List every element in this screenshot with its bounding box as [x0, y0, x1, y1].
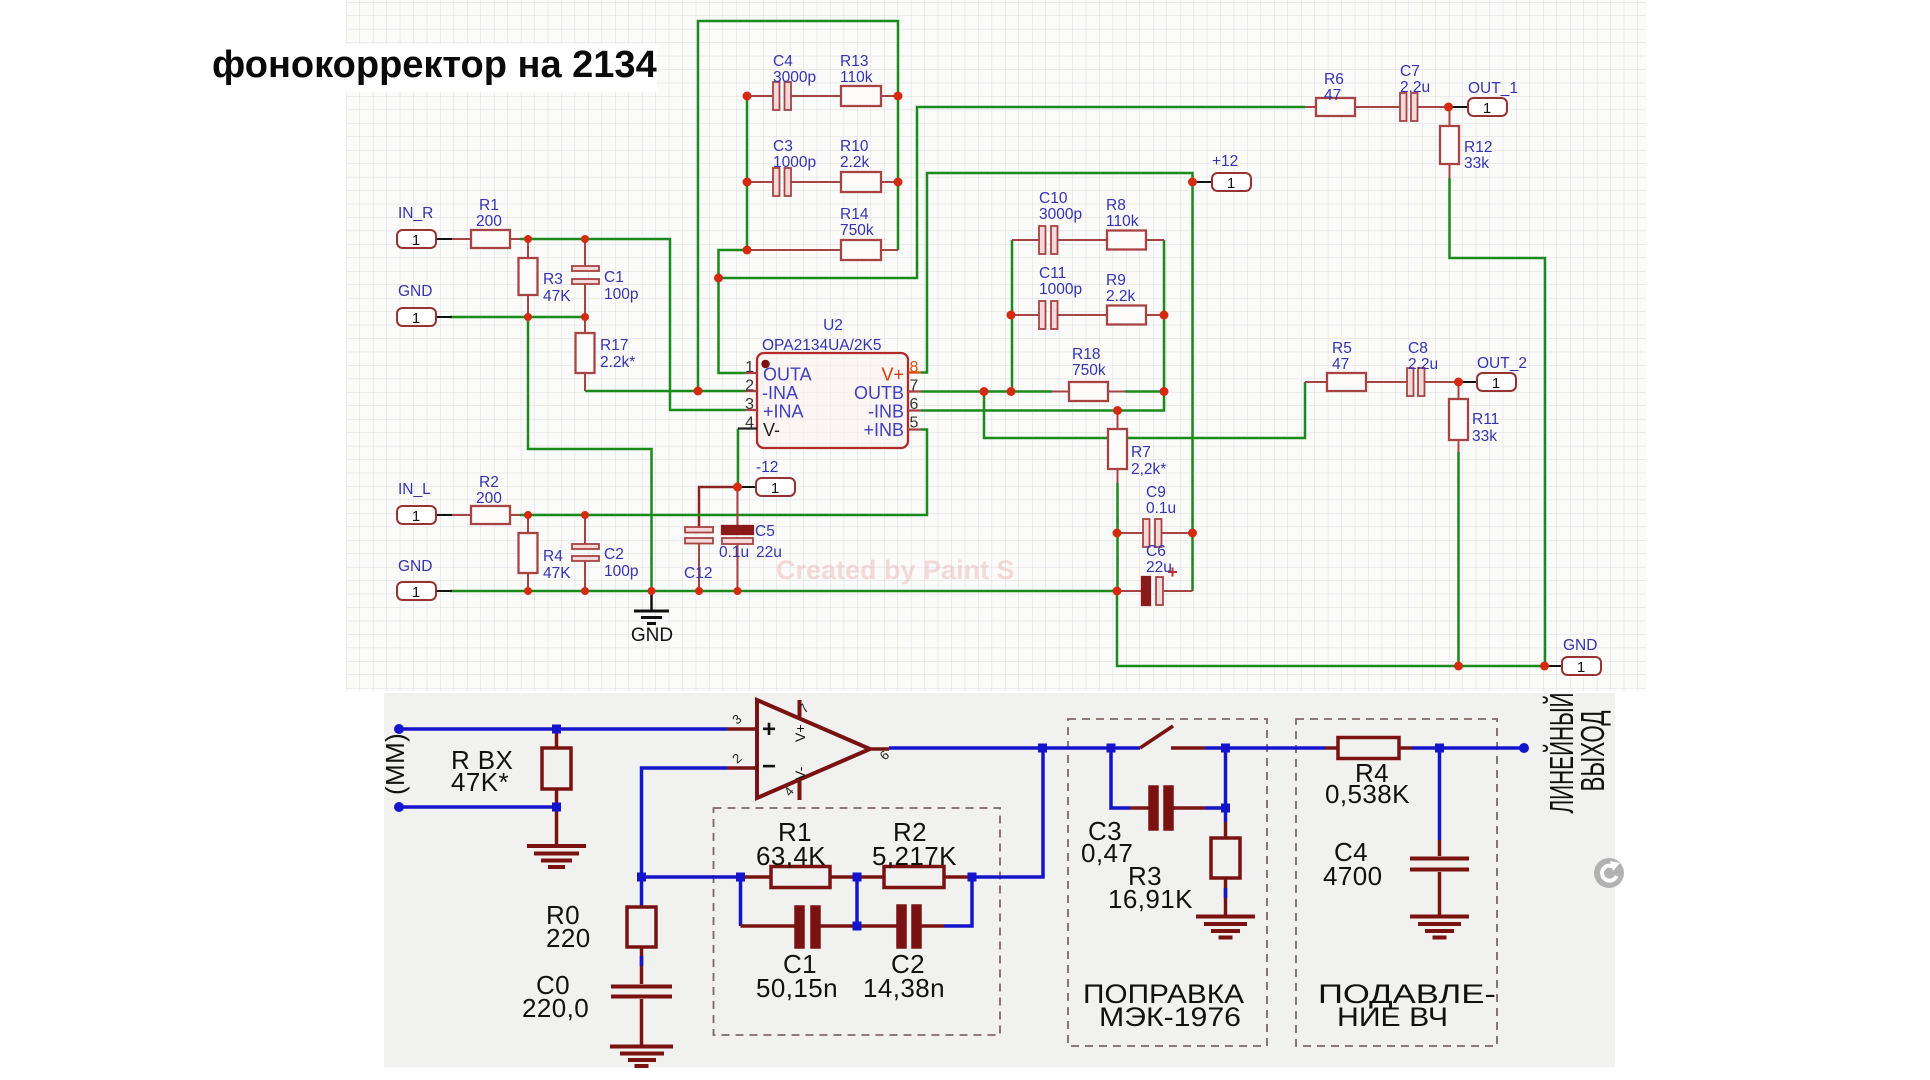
junction dots (top schematic): [524, 92, 1549, 671]
svg-text:R17: R17: [600, 337, 628, 354]
svg-text:+INA: +INA: [763, 402, 804, 422]
capacitor C6 electrolytic: [1117, 568, 1193, 606]
resistor R8: [1107, 231, 1164, 250]
svg-text:V+: V+: [792, 724, 808, 742]
svg-text:C12: C12: [684, 565, 712, 582]
wire net +12 / V+ pin8: [921, 173, 1193, 533]
svg-text:100p: 100p: [604, 286, 638, 303]
svg-text:C11: C11: [1039, 265, 1066, 282]
wire C2 right rise: [944, 877, 972, 926]
svg-text:0,47: 0,47: [1081, 838, 1133, 868]
resistor R6: [1305, 98, 1400, 116]
capacitor C9: [1117, 519, 1193, 547]
svg-text:3: 3: [745, 396, 754, 413]
svg-text:3000p: 3000p: [1039, 206, 1082, 223]
schematic grid background: [346, 0, 1646, 691]
svg-text:R6: R6: [1324, 71, 1344, 88]
ground below C0: [610, 1047, 673, 1067]
svg-text:2.2u: 2.2u: [1400, 79, 1430, 96]
resistor R18: [1052, 382, 1125, 401]
bottom schematic background: [384, 693, 1615, 1067]
svg-text:1: 1: [1577, 659, 1585, 676]
resistor R12: [1440, 107, 1459, 178]
wire C3 branch right / R3 top: [1205, 748, 1226, 822]
svg-text:1: 1: [412, 584, 420, 601]
dashed box R1 R2 C1 C2: [714, 808, 1001, 1035]
svg-text:R12: R12: [1464, 139, 1492, 156]
svg-text:5: 5: [910, 415, 919, 432]
svg-text:2.2u: 2.2u: [1408, 356, 1438, 373]
wire R11 bottom to rail: [1457, 452, 1460, 666]
capacitor C10: [1012, 226, 1107, 254]
wire C4 branch: [1438, 748, 1442, 840]
wire C6 right up to C9 right: [1191, 533, 1194, 591]
op-amp V- pin bar: [798, 779, 802, 800]
blue segments on component leads: [642, 888, 1226, 966]
svg-text:100p: 100p: [604, 563, 638, 580]
svg-text:R2: R2: [479, 474, 499, 491]
svg-text:R3: R3: [543, 271, 563, 288]
capacitor C4: [747, 82, 841, 110]
capacitor C2 14,38n: [857, 906, 944, 947]
capacitor C5 electrolytic: [722, 487, 753, 591]
svg-text:C3: C3: [773, 138, 793, 155]
wire R12 bottom route to rail: [1450, 178, 1546, 666]
svg-text:(MM): (MM): [380, 733, 410, 795]
svg-text:0,538K: 0,538K: [1325, 779, 1410, 809]
svg-text:0.1u: 0.1u: [1146, 500, 1176, 517]
svg-text:7: 7: [910, 378, 919, 395]
svg-text:GND: GND: [631, 625, 673, 646]
resistor R1: [450, 230, 520, 248]
svg-text:фонокорректор на 2134: фонокорректор на 2134: [212, 44, 657, 86]
svg-text:1: 1: [771, 480, 779, 497]
resistor R4: [519, 515, 538, 591]
svg-text:IN_R: IN_R: [398, 205, 433, 222]
wire feedback row to R1: [642, 875, 741, 879]
svg-text:2: 2: [745, 378, 754, 395]
capacitor C7: [1400, 93, 1448, 121]
port IN_R: [397, 205, 452, 249]
svg-text:110k: 110k: [840, 69, 873, 86]
svg-text:R10: R10: [840, 138, 869, 155]
switch arm: [1140, 726, 1173, 748]
svg-text:R13: R13: [840, 53, 868, 70]
svg-text:IN_L: IN_L: [398, 481, 431, 498]
svg-text:OUT_1: OUT_1: [1468, 80, 1518, 97]
capacitor C11: [1012, 301, 1107, 329]
svg-text:МЭК-1976: МЭК-1976: [1099, 1002, 1241, 1032]
resistor R3 16,91K: [1211, 822, 1240, 916]
capacitor C1 50,15n: [741, 907, 858, 947]
svg-text:C1: C1: [604, 269, 624, 286]
capacitor C8: [1407, 368, 1459, 396]
svg-text:C7: C7: [1400, 63, 1420, 80]
svg-text:C6: C6: [1146, 543, 1166, 560]
svg-text:C5: C5: [755, 523, 775, 540]
svg-text:47: 47: [1332, 356, 1349, 373]
capacitor C12: [685, 527, 713, 591]
svg-text:47K: 47K: [543, 565, 571, 582]
svg-text:1: 1: [1492, 375, 1500, 392]
svg-text:R14: R14: [840, 206, 869, 223]
svg-text:V-: V-: [792, 766, 808, 780]
ground symbol GND (top schematic): [634, 591, 669, 624]
svg-text:-12: -12: [756, 459, 778, 476]
svg-text:OUT_2: OUT_2: [1477, 355, 1527, 372]
svg-text:C9: C9: [1146, 484, 1166, 501]
U2 pin 3 stub: [745, 409, 757, 411]
resistor R5: [1305, 373, 1407, 391]
resistor R BX 47K*: [542, 729, 571, 807]
svg-text:GND: GND: [398, 283, 432, 300]
title white band: [345, 44, 657, 92]
wire net IN_L row to pin5: [520, 430, 927, 516]
wire GND rail right lower: [1117, 591, 1546, 666]
svg-text:2,2k*: 2,2k*: [1131, 461, 1166, 478]
svg-text:47K*: 47K*: [451, 767, 509, 797]
svg-text:200: 200: [476, 490, 502, 507]
svg-text:GND: GND: [1563, 637, 1597, 654]
svg-text:1: 1: [1227, 175, 1235, 192]
wire input top row to op-amp +in: [399, 727, 727, 731]
U2 pin 2 stub: [745, 390, 757, 392]
capacitor C3 0,47: [1130, 787, 1205, 829]
port GND (R): [397, 283, 452, 327]
svg-text:C2: C2: [604, 546, 624, 563]
wire C10 block right vertical: [1163, 240, 1166, 392]
svg-text:+: +: [762, 716, 776, 743]
svg-text:C10: C10: [1039, 190, 1068, 207]
svg-text:R4: R4: [543, 548, 563, 565]
svg-text:220,0: 220,0: [522, 993, 589, 1023]
op-amp triangle: [757, 700, 870, 798]
svg-text:110k: 110k: [1106, 213, 1139, 230]
wire C1 left drop: [739, 877, 743, 926]
svg-text:U2: U2: [823, 317, 843, 334]
port OUT_2: [1459, 355, 1527, 392]
svg-text:OUTA: OUTA: [763, 365, 812, 385]
svg-text:1000p: 1000p: [773, 154, 816, 171]
wire R0 top lead: [640, 877, 644, 907]
wire net OUTB pin7 row: [921, 390, 1052, 393]
svg-text:3000p: 3000p: [773, 69, 816, 86]
wire net OUTA: pin1 up, to R14 row corner, and to R6 row: [719, 107, 1306, 373]
resistor R10: [841, 172, 898, 192]
svg-text:+12: +12: [1212, 153, 1238, 170]
svg-text:5,217K: 5,217K: [872, 841, 957, 871]
svg-text:33k: 33k: [1464, 155, 1489, 172]
U2 pin 6 stub: [908, 409, 921, 411]
resistor R1 63,4K: [741, 867, 858, 888]
svg-text:1000p: 1000p: [1039, 281, 1082, 298]
svg-text:R11: R11: [1472, 411, 1499, 428]
svg-text:R8: R8: [1106, 197, 1126, 214]
wire net IN_R row: [520, 239, 745, 410]
svg-text:1: 1: [1483, 100, 1491, 117]
U2 pin 4 stub (V-): [738, 427, 757, 429]
capacitor C0 220,0: [611, 947, 672, 1045]
svg-text:-INA: -INA: [762, 383, 798, 403]
capacitor C2: [572, 515, 599, 591]
resistor R0 220: [627, 907, 656, 947]
svg-text:4700: 4700: [1323, 861, 1382, 891]
svg-text:R7: R7: [1131, 444, 1151, 461]
resistor R4 0,538K: [1325, 738, 1412, 759]
svg-text:-INB: -INB: [868, 402, 904, 422]
op-amp input stubs pins 3,2: [727, 729, 757, 768]
wire net -INA: R17 bottom to pin2, vertical x698, top loop, right vertical: [585, 21, 898, 391]
svg-text:2.2k*: 2.2k*: [600, 354, 635, 371]
wire R7 bottom to GND rail: [1116, 483, 1119, 591]
U2 pin 8 stub (V+): [908, 371, 921, 373]
resistor R9: [1107, 306, 1164, 325]
port +12: [1193, 153, 1252, 192]
port GND (L): [397, 558, 452, 601]
svg-text:750k: 750k: [840, 222, 874, 239]
svg-text:НИЕ ВЧ: НИЕ ВЧ: [1337, 1002, 1448, 1032]
capacitor C1: [572, 239, 599, 317]
svg-text:C8: C8: [1408, 340, 1428, 357]
wire C10 block left vertical: [1011, 240, 1014, 392]
resistor R2: [450, 506, 520, 524]
switch fixed contact: [1171, 746, 1205, 750]
svg-text:R5: R5: [1332, 340, 1352, 357]
junction dots (bottom schematic): [394, 724, 1529, 931]
svg-text:1: 1: [412, 508, 420, 525]
wire C1/C2 mid drop: [855, 877, 859, 926]
dashed box ПОПРАВКА МЭК-1976: [1068, 719, 1267, 1046]
wire net GND_R row: [450, 316, 585, 319]
wire net -INB pin6 row: [921, 392, 1164, 411]
wire net V- pin4 down to -12 junction: [737, 429, 740, 488]
op-amp V+ pin bar: [798, 700, 802, 719]
svg-text:ВЫХОД: ВЫХОД: [1574, 711, 1611, 792]
U2 pin 1 stub: [745, 372, 757, 374]
wire C3 branch left: [1111, 748, 1130, 808]
op-amp U2 OPA2134UA/2K5: [738, 317, 921, 448]
capacitor C4 4700: [1410, 840, 1469, 916]
svg-text:63,4K: 63,4K: [756, 841, 826, 871]
svg-text:50,15n: 50,15n: [756, 973, 838, 1003]
svg-text:R9: R9: [1106, 272, 1126, 289]
svg-text:6: 6: [910, 396, 919, 413]
U2 pin 5 stub: [908, 428, 921, 430]
capacitor C3: [747, 168, 841, 196]
wire -12 junction to C12 top corner: [699, 487, 738, 527]
wire R2 right to output row: [972, 748, 1043, 877]
svg-text:2.2k: 2.2k: [1106, 288, 1136, 305]
svg-text:220: 220: [546, 923, 591, 953]
resistor R11: [1449, 382, 1468, 452]
resistor R3: [519, 239, 538, 317]
resistor R17: [576, 317, 595, 391]
svg-text:Created by Paint S: Created by Paint S: [776, 555, 1015, 585]
resistor R13: [841, 86, 898, 106]
svg-text:V+: V+: [881, 365, 904, 385]
svg-text:33k: 33k: [1472, 428, 1497, 445]
svg-text:1: 1: [412, 232, 420, 249]
wire feedback left vertical C4/C3/R14: [746, 96, 749, 250]
svg-text:47K: 47K: [543, 288, 571, 305]
ground below C4: [1410, 917, 1469, 938]
svg-text:OPA2134UA/2K5: OPA2134UA/2K5: [762, 337, 881, 354]
resistor R14: [747, 240, 898, 260]
svg-text:22u: 22u: [756, 544, 782, 561]
port OUT_1: [1450, 80, 1518, 117]
svg-text:GND: GND: [398, 558, 432, 575]
port GND (right): [1546, 637, 1601, 676]
ground below R BX: [527, 807, 586, 867]
U2 dot pin1 marker: [761, 360, 769, 368]
wire main output row: [889, 746, 1524, 750]
op-amp output stub pin 6: [870, 747, 889, 751]
svg-text:2.2k: 2.2k: [840, 154, 870, 171]
wire input bottom row: [399, 805, 557, 809]
svg-text:0.1u: 0.1u: [719, 544, 749, 561]
svg-text:R1: R1: [479, 197, 499, 214]
wire GND_R route down to rail: [528, 317, 652, 591]
svg-text:8: 8: [910, 359, 919, 376]
svg-text:OUTB: OUTB: [854, 383, 904, 403]
svg-text:4: 4: [745, 415, 754, 432]
svg-text:16,91K: 16,91K: [1108, 884, 1193, 914]
wire GND rail left: [450, 590, 1117, 593]
port -12: [738, 459, 796, 497]
svg-text:V-: V-: [763, 420, 780, 440]
svg-text:R18: R18: [1072, 346, 1100, 363]
dashed box ПОДАВЛЕНИЕ ВЧ: [1296, 719, 1497, 1046]
svg-text:14,38n: 14,38n: [863, 973, 945, 1003]
svg-text:−: −: [762, 753, 776, 780]
resistor R2 5,217K: [857, 867, 972, 888]
wire op-amp -in feedback down: [642, 768, 728, 877]
port IN_L: [397, 481, 452, 525]
svg-text:C4: C4: [773, 53, 793, 70]
svg-text:750k: 750k: [1072, 362, 1106, 379]
gray circle icon: [1594, 858, 1624, 888]
svg-text:200: 200: [476, 213, 502, 230]
svg-text:22u: 22u: [1146, 559, 1172, 576]
svg-text:1: 1: [412, 310, 420, 327]
svg-text:47: 47: [1324, 87, 1341, 104]
svg-text:+INB: +INB: [863, 420, 904, 440]
U2 pin 7 stub: [908, 390, 921, 392]
wire OUTB to R5 route: [984, 382, 1305, 438]
resistor R7: [1108, 411, 1127, 484]
ground below R3: [1196, 917, 1255, 938]
wire R18 right to junction: [1125, 390, 1164, 393]
svg-text:1: 1: [745, 359, 754, 376]
